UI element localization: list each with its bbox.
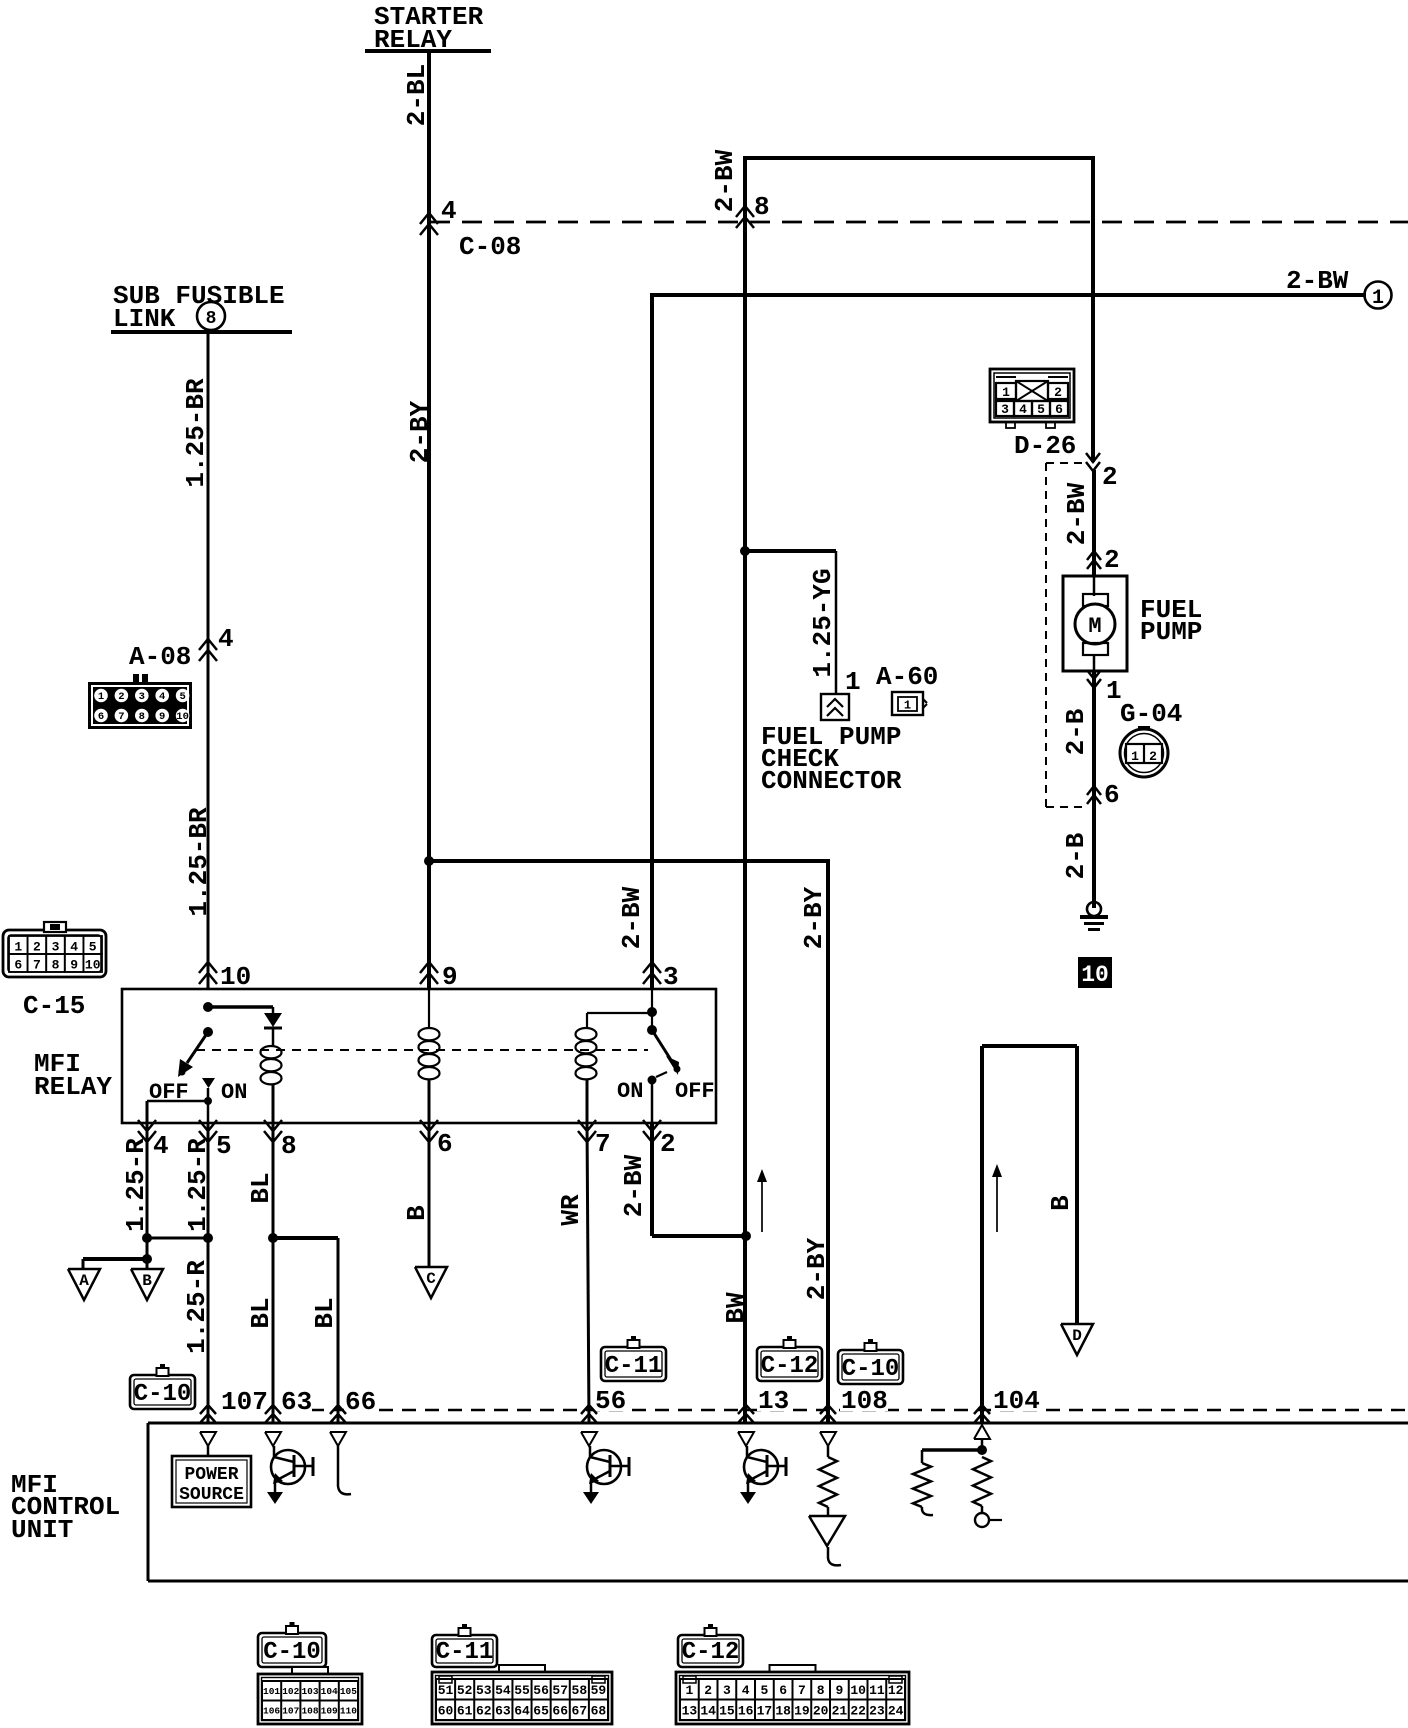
- wire pin104 loop: [982, 1046, 1077, 1423]
- label G-04: [1120, 699, 1182, 729]
- svg-text:7: 7: [33, 958, 41, 973]
- svg-text:1: 1: [14, 940, 22, 955]
- resistor R3 pin104: [973, 1457, 1002, 1527]
- svg-text:C-08: C-08: [459, 232, 521, 262]
- svg-text:2: 2: [1104, 545, 1120, 575]
- MFI pin 13 arrow: [738, 1405, 754, 1423]
- wire 2-BW down to junction: [743, 156, 747, 1423]
- svg-text:63: 63: [495, 1703, 511, 1718]
- svg-text:20: 20: [813, 1703, 829, 1718]
- svg-text:CONNECTOR: CONNECTOR: [761, 766, 902, 796]
- wire relay pin9 to coil: [428, 989, 430, 1028]
- svg-text:2-BW: 2-BW: [617, 886, 647, 949]
- svg-text:8: 8: [52, 958, 60, 973]
- svg-text:2: 2: [33, 940, 41, 955]
- relay pin 2 arrow: [643, 1120, 676, 1159]
- svg-text:C-10: C-10: [134, 1381, 192, 1408]
- svg-text:C-10: C-10: [263, 1639, 321, 1666]
- svg-text:WR: WR: [556, 1194, 586, 1226]
- svg-text:C-15: C-15: [23, 991, 85, 1021]
- svg-text:A-08: A-08: [129, 642, 191, 672]
- fuel pump pin 2 arrow: [1087, 545, 1120, 575]
- svg-text:2-BY: 2-BY: [802, 1237, 832, 1300]
- wire relay pin3 down: [651, 989, 653, 1030]
- junction dot pin5: [203, 1233, 213, 1243]
- junction dot BW: [741, 1231, 751, 1241]
- label OFF right: [675, 1079, 715, 1104]
- pin 13 label: [757, 1386, 789, 1416]
- connector A-08: [88, 674, 192, 729]
- svg-text:106: 106: [263, 1706, 280, 1717]
- svg-text:4: 4: [742, 1683, 750, 1698]
- label 2-BL: [402, 64, 432, 126]
- label C-15: [23, 991, 85, 1021]
- svg-text:B: B: [142, 1272, 152, 1290]
- svg-text:1.25-BR: 1.25-BR: [184, 807, 214, 917]
- label MFI CONTROL UNIT: [11, 1470, 120, 1545]
- label 1.25-R pin5: [183, 1138, 213, 1232]
- junction dot relay pin3 a: [647, 1007, 657, 1017]
- svg-text:105: 105: [340, 1686, 357, 1697]
- label OFF left: [149, 1080, 189, 1105]
- svg-text:51: 51: [438, 1683, 454, 1698]
- svg-text:D-26: D-26: [1014, 431, 1076, 461]
- ground triangle B: [131, 1259, 163, 1300]
- connector C-12 pin grid: [676, 1665, 909, 1724]
- svg-text:C-12: C-12: [761, 1353, 819, 1380]
- svg-text:6: 6: [1104, 780, 1120, 810]
- svg-text:C: C: [426, 1270, 436, 1288]
- connector label C-12 pin13: [757, 1336, 822, 1381]
- svg-text:B: B: [1046, 1195, 1076, 1211]
- svg-text:2: 2: [1102, 462, 1118, 492]
- label 2-BW fuel pump: [1062, 482, 1092, 545]
- svg-text:1: 1: [845, 667, 861, 697]
- terminal circled 1: [1365, 282, 1392, 311]
- MFI control unit box: [148, 1423, 1408, 1581]
- svg-text:2-BL: 2-BL: [402, 64, 432, 126]
- page reference box 10: [1078, 957, 1112, 988]
- svg-text:POWER: POWER: [184, 1465, 238, 1485]
- svg-text:9: 9: [835, 1683, 843, 1698]
- svg-text:BL: BL: [310, 1297, 340, 1328]
- wire to right coil: [587, 1013, 652, 1028]
- svg-text:BW: BW: [721, 1292, 751, 1324]
- svg-text:SOURCE: SOURCE: [179, 1485, 244, 1505]
- pin 104 label: [992, 1386, 1040, 1416]
- label 1.25-YG: [808, 568, 838, 677]
- svg-text:55: 55: [514, 1683, 530, 1698]
- relay ON contact right: [648, 1072, 668, 1123]
- junction dot pin5 wire: [204, 1097, 212, 1105]
- relay pin 4 arrow: [138, 1120, 169, 1161]
- svg-text:7: 7: [595, 1129, 611, 1159]
- svg-text:9: 9: [70, 958, 78, 973]
- svg-text:2: 2: [704, 1683, 712, 1698]
- connector label C-12 bottom: [678, 1624, 743, 1667]
- svg-text:23: 23: [869, 1703, 885, 1718]
- wire pin4 down: [146, 1123, 149, 1259]
- svg-text:4: 4: [153, 1131, 169, 1161]
- svg-text:5: 5: [1037, 402, 1045, 417]
- coil middle relay: [419, 1028, 440, 1123]
- svg-text:21: 21: [832, 1703, 848, 1718]
- wire pin5 down: [207, 1123, 210, 1423]
- label 1.25-R pin4: [121, 1138, 151, 1232]
- svg-text:66: 66: [552, 1703, 568, 1718]
- pin 56 label: [594, 1386, 626, 1416]
- junction dot relay pin10 a: [203, 1002, 213, 1012]
- svg-text:A: A: [79, 1272, 89, 1290]
- wire pin7 down: [587, 1123, 589, 1423]
- label MFI RELAY: [34, 1049, 112, 1102]
- svg-text:C-10: C-10: [842, 1356, 900, 1383]
- relay pin 7 arrow: [578, 1120, 611, 1159]
- svg-text:1: 1: [685, 1683, 693, 1698]
- svg-text:1: 1: [1131, 749, 1139, 764]
- svg-text:108: 108: [301, 1706, 318, 1717]
- svg-text:10: 10: [176, 711, 189, 723]
- relay switch arm right: [652, 1030, 681, 1075]
- svg-text:110: 110: [340, 1706, 357, 1717]
- connector label C-11 bottom: [432, 1624, 497, 1667]
- pin 108 label: [840, 1386, 888, 1416]
- svg-text:M: M: [1088, 614, 1101, 639]
- label 2-BW pin3 wire: [617, 886, 647, 949]
- svg-text:58: 58: [572, 1683, 588, 1698]
- ground fuel pump: [1080, 902, 1108, 930]
- wire 2-BW down to relay pin 3: [650, 293, 654, 989]
- svg-text:109: 109: [321, 1706, 338, 1717]
- connector C-15: [3, 922, 106, 977]
- transistor Q2 pin56: [583, 1446, 629, 1504]
- svg-text:107: 107: [221, 1387, 268, 1417]
- svg-text:54: 54: [495, 1683, 511, 1698]
- relay switch arm left: [178, 1032, 208, 1077]
- wire to ground A: [83, 1259, 147, 1269]
- resistor R2 branch: [913, 1450, 982, 1515]
- svg-text:103: 103: [301, 1686, 318, 1697]
- svg-text:1.25-R: 1.25-R: [182, 1260, 212, 1354]
- coil right relay: [576, 1028, 597, 1123]
- svg-text:8: 8: [281, 1131, 297, 1161]
- connector label C-10 bottom: [258, 1622, 326, 1667]
- fuel pump motor: [1063, 576, 1127, 671]
- svg-text:17: 17: [757, 1703, 773, 1718]
- MFI pin 63 input triangle: [265, 1432, 281, 1446]
- svg-text:3: 3: [663, 962, 679, 992]
- label A-60: [876, 662, 938, 692]
- svg-text:G-04: G-04: [1120, 699, 1182, 729]
- connector C-10 pin grid: [258, 1667, 362, 1724]
- transistor Q3 pin13: [740, 1446, 786, 1504]
- svg-text:5: 5: [89, 940, 97, 955]
- svg-text:53: 53: [476, 1683, 492, 1698]
- label WR: [556, 1194, 586, 1226]
- label 2-B upper: [1061, 708, 1091, 755]
- svg-text:8: 8: [206, 309, 217, 329]
- diode left relay: [264, 1013, 282, 1046]
- svg-text:68: 68: [591, 1703, 607, 1718]
- svg-text:19: 19: [794, 1703, 810, 1718]
- svg-text:ON: ON: [221, 1080, 247, 1105]
- svg-text:2-BW: 2-BW: [1062, 482, 1092, 545]
- svg-text:2-BW: 2-BW: [619, 1154, 649, 1217]
- svg-text:9: 9: [159, 711, 165, 723]
- svg-text:24: 24: [888, 1703, 904, 1718]
- svg-text:59: 59: [591, 1683, 607, 1698]
- svg-text:4: 4: [159, 691, 165, 703]
- connector D-26 pin 2 arrow: [1086, 453, 1118, 492]
- direction arrow BW: [757, 1169, 767, 1232]
- svg-text:1: 1: [1002, 385, 1010, 400]
- label 2-BW right: [1286, 266, 1349, 296]
- label BL pin63: [246, 1297, 276, 1328]
- svg-text:1.25-BR: 1.25-BR: [181, 378, 211, 488]
- wire pin8 down: [272, 1123, 275, 1423]
- connector D-26: [990, 369, 1074, 428]
- svg-text:D: D: [1072, 1327, 1082, 1345]
- wire 2-BY down to pin 108: [826, 859, 830, 1423]
- relay pin 3 arrow: [643, 962, 679, 992]
- svg-text:1: 1: [98, 691, 104, 703]
- svg-text:1: 1: [1372, 287, 1384, 310]
- direction arrow B 104: [992, 1164, 1002, 1232]
- svg-text:BL: BL: [246, 1297, 276, 1328]
- svg-text:102: 102: [282, 1686, 299, 1697]
- svg-text:6: 6: [779, 1683, 787, 1698]
- MFI pin 104 arrow: [974, 1405, 990, 1423]
- svg-text:2-B: 2-B: [1061, 708, 1091, 755]
- label 2-BY pin108: [802, 1237, 832, 1300]
- junction dot relay pin10 b: [203, 1027, 213, 1037]
- svg-text:13: 13: [758, 1386, 789, 1416]
- junction dot relay pin3 b: [647, 1025, 657, 1035]
- label pin 1 A-60: [845, 667, 861, 697]
- wire pin6 down: [428, 1123, 431, 1267]
- pin 107 label: [219, 1387, 268, 1417]
- label 1.25-R pin107: [182, 1260, 212, 1354]
- pin 66 label: [344, 1387, 376, 1417]
- junction dot pin8: [268, 1233, 278, 1243]
- svg-text:12: 12: [888, 1683, 904, 1698]
- svg-text:2-BY: 2-BY: [799, 886, 829, 949]
- wire 2-BL starter relay down to relay pin 9: [427, 51, 431, 989]
- svg-text:6: 6: [14, 958, 22, 973]
- connector label C-10 pin107: [130, 1364, 195, 1409]
- svg-text:3: 3: [52, 940, 60, 955]
- wire 1.25-BR sub fusible link down: [207, 334, 210, 989]
- svg-text:67: 67: [572, 1703, 588, 1718]
- svg-text:2-BW: 2-BW: [710, 149, 740, 212]
- ground triangle C: [415, 1267, 447, 1298]
- svg-text:64: 64: [514, 1703, 530, 1718]
- svg-text:2: 2: [118, 691, 124, 703]
- junction dot pin4: [142, 1233, 152, 1243]
- resistor R1 pin108: [819, 1446, 837, 1516]
- MFI pin 66 arrow: [330, 1405, 346, 1423]
- svg-text:8: 8: [817, 1683, 825, 1698]
- svg-text:14: 14: [700, 1703, 716, 1718]
- fuel pump assembly pin 6 arrow: [1087, 780, 1120, 810]
- svg-text:4: 4: [218, 624, 234, 654]
- svg-text:OFF: OFF: [675, 1079, 715, 1104]
- label 2-BW top: [710, 149, 740, 212]
- connector A-60 terminal box: [821, 694, 849, 720]
- junction dot ground branch: [142, 1254, 152, 1264]
- sub fusible link label: [111, 281, 292, 334]
- ground triangle D: [1061, 1324, 1093, 1355]
- svg-text:10: 10: [850, 1683, 866, 1698]
- wire branch to check connector: [745, 551, 836, 696]
- svg-text:1: 1: [904, 699, 911, 713]
- svg-text:65: 65: [533, 1703, 549, 1718]
- svg-text:16: 16: [738, 1703, 754, 1718]
- svg-text:63: 63: [281, 1387, 312, 1417]
- fuel pump pin 1 arrow: [1087, 670, 1122, 908]
- transistor Q1 pin63: [267, 1446, 313, 1504]
- label A-08: [129, 642, 191, 672]
- svg-text:108: 108: [841, 1386, 888, 1416]
- starter relay label: [365, 2, 491, 55]
- svg-text:2-B: 2-B: [1061, 832, 1091, 879]
- svg-text:11: 11: [869, 1683, 885, 1698]
- output triangle pin108: [809, 1516, 845, 1565]
- label 2-BY mid: [799, 886, 829, 949]
- connector A-08 pin 4 arrow: [199, 624, 234, 661]
- svg-text:104: 104: [993, 1386, 1040, 1416]
- svg-text:6: 6: [437, 1129, 453, 1159]
- label ON left: [221, 1080, 247, 1105]
- MFI pin 107 input triangle: [200, 1432, 216, 1446]
- wire relay diode feed: [208, 1007, 273, 1013]
- MFI pin 63 arrow: [265, 1405, 281, 1423]
- junction dot pin104: [977, 1439, 987, 1455]
- svg-text:60: 60: [438, 1703, 454, 1718]
- connector G-04: [1120, 727, 1168, 777]
- wire pin4-pin5 tie: [147, 1237, 208, 1240]
- svg-text:ON: ON: [617, 1079, 643, 1104]
- stub pin 66: [338, 1446, 351, 1494]
- label 1.25-BR upper: [181, 378, 211, 488]
- label BW: [721, 1292, 751, 1324]
- svg-text:22: 22: [850, 1703, 866, 1718]
- wire 2-BW long horizontal: [652, 293, 1366, 297]
- relay pin 6 arrow: [420, 1120, 453, 1159]
- svg-text:3: 3: [139, 691, 145, 703]
- relay ON contact left: [202, 1078, 215, 1123]
- svg-text:4: 4: [1019, 402, 1027, 417]
- svg-text:LINK: LINK: [113, 304, 176, 334]
- label B pin6: [402, 1205, 432, 1221]
- svg-text:UNIT: UNIT: [11, 1515, 73, 1545]
- svg-text:10: 10: [220, 962, 251, 992]
- label FUEL PUMP: [1140, 595, 1202, 647]
- svg-text:62: 62: [476, 1703, 492, 1718]
- connector C-11 pin grid: [432, 1665, 612, 1724]
- svg-text:101: 101: [263, 1686, 280, 1697]
- svg-text:B: B: [402, 1205, 432, 1221]
- svg-text:6: 6: [1055, 402, 1063, 417]
- label ON right: [617, 1079, 643, 1104]
- MFI pin 107 arrow: [200, 1405, 216, 1423]
- svg-text:RELAY: RELAY: [34, 1072, 112, 1102]
- svg-text:1.25-YG: 1.25-YG: [808, 568, 838, 677]
- svg-text:C-12: C-12: [682, 1639, 740, 1666]
- power source box: [172, 1446, 251, 1507]
- wire 2-BW to fuel pump: [1092, 470, 1096, 576]
- svg-text:4: 4: [70, 940, 78, 955]
- svg-text:10: 10: [85, 958, 101, 973]
- connector C-08 pin 8 arrow: [736, 192, 770, 228]
- svg-text:8: 8: [139, 711, 145, 723]
- svg-text:56: 56: [595, 1386, 626, 1416]
- wire 2-BW top horizontal: [745, 156, 1093, 160]
- wire 2-BW right vertical to D-26: [1091, 156, 1095, 462]
- svg-text:2: 2: [660, 1129, 676, 1159]
- svg-text:BL: BL: [246, 1172, 276, 1203]
- label 2-BY upper: [405, 400, 435, 463]
- svg-text:C-11: C-11: [605, 1353, 663, 1380]
- svg-text:61: 61: [457, 1703, 473, 1718]
- coil left relay: [261, 1046, 282, 1123]
- relay pin 5 arrow: [199, 1120, 232, 1161]
- label C-08: [459, 232, 521, 262]
- MFI pin 104 output triangle: [974, 1425, 990, 1439]
- svg-text:13: 13: [682, 1703, 698, 1718]
- label BL pin66: [310, 1297, 340, 1328]
- svg-text:5: 5: [760, 1683, 768, 1698]
- label D-26: [1014, 431, 1076, 461]
- wire 2-BY horizontal branch: [429, 859, 828, 863]
- svg-text:A-60: A-60: [876, 662, 938, 692]
- svg-text:10: 10: [1081, 962, 1109, 988]
- svg-text:6: 6: [98, 711, 104, 723]
- relay pin 9 arrow: [420, 962, 458, 992]
- svg-text:52: 52: [457, 1683, 473, 1698]
- svg-text:66: 66: [345, 1387, 376, 1417]
- svg-text:18: 18: [775, 1703, 791, 1718]
- connector label C-11 pin56: [601, 1336, 666, 1381]
- wire OFF contact to pin 4: [147, 1101, 208, 1123]
- svg-text:2: 2: [1054, 385, 1062, 400]
- svg-text:2: 2: [1149, 749, 1157, 764]
- pin 63 label: [280, 1387, 312, 1417]
- label B 104: [1046, 1195, 1076, 1211]
- label BL pin8: [246, 1172, 276, 1203]
- svg-text:2-BY: 2-BY: [405, 400, 435, 463]
- label 1.25-BR lower: [184, 807, 214, 917]
- relay pin 10 arrow: [199, 962, 251, 992]
- connector C-08 pin 4 arrow: [420, 196, 457, 235]
- junction dot 2-BW branch: [740, 546, 750, 556]
- label 2-B lower: [1061, 832, 1091, 879]
- dashed line MFI connector: [287, 1409, 1408, 1411]
- svg-text:5: 5: [179, 691, 185, 703]
- MFI relay box: [122, 989, 716, 1123]
- MFI pin 108 input triangle: [820, 1432, 836, 1446]
- ground triangle A: [68, 1269, 100, 1300]
- dashed line C-08: [430, 221, 1408, 224]
- svg-text:7: 7: [118, 711, 124, 723]
- dashed relay actuation line: [196, 1049, 648, 1051]
- MFI pin 13 input triangle: [738, 1432, 754, 1446]
- MFI pin 56 input triangle: [581, 1432, 597, 1446]
- svg-text:3: 3: [723, 1683, 731, 1698]
- svg-text:15: 15: [719, 1703, 735, 1718]
- svg-text:3: 3: [1001, 402, 1009, 417]
- svg-text:107: 107: [282, 1706, 299, 1717]
